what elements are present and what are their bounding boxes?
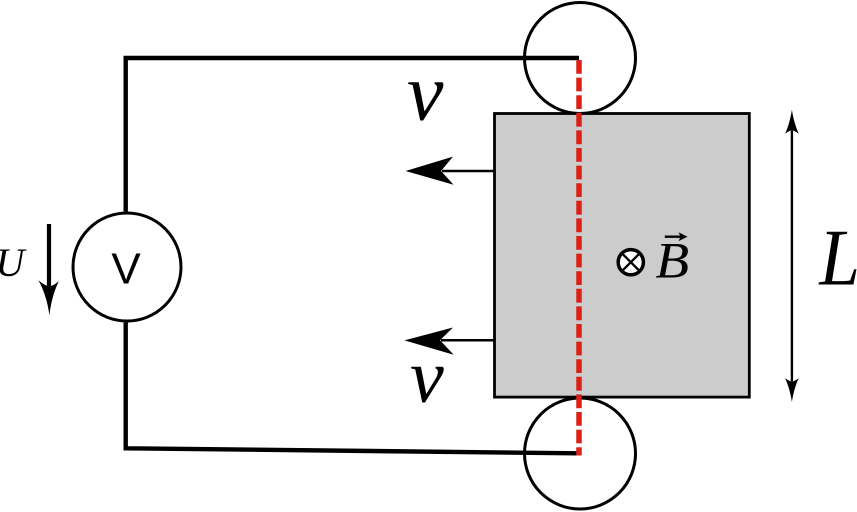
- wire bottom (voltmeter to bottom roller): [126, 323, 578, 454]
- length arrow L (double headed): [785, 110, 799, 402]
- flux into page symbol (circled cross): [618, 250, 643, 275]
- conducting rod (red dashed line): [576, 60, 582, 456]
- svg-text:U: U: [0, 240, 28, 285]
- svg-text:v: v: [410, 335, 444, 419]
- wire top (voltmeter to top roller): [126, 58, 579, 212]
- svg-text:V: V: [111, 245, 141, 294]
- vector arrow over B: [665, 232, 688, 241]
- svg-text:B: B: [656, 233, 690, 289]
- voltmeter U1: [73, 213, 181, 321]
- voltage arrow U (downward): [38, 224, 58, 315]
- field region (gray rectangle): [495, 114, 750, 398]
- velocity arrow bottom: [404, 328, 494, 355]
- bottom roller contact: [525, 398, 636, 509]
- velocity arrow top: [406, 157, 494, 185]
- top roller contact: [525, 3, 636, 114]
- svg-text:v: v: [407, 47, 444, 138]
- svg-text:L: L: [818, 212, 857, 302]
